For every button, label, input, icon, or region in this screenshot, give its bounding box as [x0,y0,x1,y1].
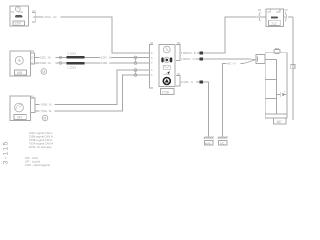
icon clock in 1728 [163,46,170,53]
connector bracket ( of 717 [259,12,260,21]
connector bracket left of 1728 [150,45,154,89]
inline connector square on right wire [291,64,295,68]
symbol circle in box 1337 [15,7,20,12]
wire AP41-JN from 1337 to node [35,17,150,53]
svg-text:5: 5 [181,51,183,55]
svg-text:133B - Gi: 133B - Gi [40,61,51,65]
connector N1 of box 247 [31,98,36,113]
svg-text:133C - Ni: 133C - Ni [40,56,51,60]
svg-text:4: 4 [151,68,153,72]
connector N4 of box 1337 [32,13,35,23]
wire BP10-B (1728 to 717) [183,17,257,53]
svg-text:C 133 A: C 133 A [67,66,76,70]
svg-text:BP10 - B: BP10 - B [185,51,196,55]
wire 133B CAN H (645 to 1728) [34,62,149,64]
svg-text:8: 8 [31,62,33,65]
svg-text:N0: N0 [285,9,289,12]
wire MC-N (1728 pin2 to battery box) [183,58,250,60]
svg-text:247 - Licznik: 247 - Licznik [25,160,41,164]
svg-text:1332 - wspomaganie: 1332 - wspomaganie [25,163,50,167]
svg-text:+: + [284,91,286,94]
svg-text:1337: 1337 [14,22,21,26]
splice on 133B [59,62,62,65]
connector right of 717 [284,16,294,18]
inline connector pair on lower CAN wires [135,70,137,75]
ground MAU [204,137,214,139]
svg-text:N0: N0 [258,9,262,12]
battery icon on top [274,49,280,53]
svg-text:717: 717 [271,22,277,26]
wire 133C CAN L (645 to 1728) [34,57,149,59]
twisted pair shield C133 A [67,56,85,59]
wire Y53B CAN L (247 to riser) [35,70,150,105]
svg-text:3-115: 3-115 [3,140,10,164]
svg-text:247: 247 [17,116,23,120]
fuse box 717 (top right) [266,9,284,26]
wire MAL-N (1728 to ground) [183,82,209,137]
battery cell symbol [277,92,286,97]
svg-text:6: 6 [257,15,259,19]
component box 247 (instrument cluster) [10,96,31,121]
svg-text:645 - UCH: 645 - UCH [25,156,38,160]
svg-text:2: 2 [181,57,183,61]
icon arrow in 1728 [163,72,171,75]
connector bracket top-right of 1728 [176,45,180,61]
svg-text:5A: 5A [11,10,14,14]
symbol circle in box 645 [15,56,23,64]
svg-text:Y53B - Gi: Y53B - Gi [40,103,52,107]
svg-text:5: 5 [151,56,153,60]
diagonal of MC-N wire to connector [244,59,256,64]
svg-text:645: 645 [17,71,23,75]
circled letter M near 247 [42,115,48,121]
svg-text:AP41 - JN: AP41 - JN [45,15,57,19]
icon envelope in 1728 [163,66,170,70]
wire 717 to battery box (right edge) [292,17,294,120]
connector left of 717 [260,16,266,18]
svg-text:Y53A-sygnal CAN H: Y53A-sygnal CAN H [29,142,53,146]
wire MC-N ground branch [223,64,244,137]
ground hatch MC [218,136,228,138]
circled letter M near 645 [41,69,47,75]
svg-text:8: 8 [151,51,153,55]
inline connector to battery box [256,55,265,64]
ground MC [218,137,228,139]
connector bracket ) of 717 [285,12,286,21]
component box 1337 (fuse box, top-left) [10,6,29,26]
svg-text:7: 7 [151,61,153,65]
splice on 133C [59,56,62,59]
svg-text:MC - N: MC - N [186,57,194,61]
svg-text:133B - Gi: 133B - Gi [101,61,112,65]
svg-text:N4: N4 [33,10,37,13]
svg-text:MC - N: MC - N [227,62,235,66]
symbol circle in box 247 (speedometer) [15,103,24,112]
svg-text:1728: 1728 [162,91,169,95]
central unit 1728 [159,45,175,87]
svg-text:Y53A - Ni: Y53A - Ni [40,109,51,113]
svg-text:M: M [44,116,47,120]
ground hatch MAU [204,136,214,138]
svg-text:133C - Ni: 133C - Ni [101,56,112,60]
svg-text:10A: 10A [276,10,281,14]
icon horn in 1728 [161,57,163,62]
svg-text:133C-sygnal CAN L: 133C-sygnal CAN L [29,131,53,135]
svg-text:MAU: MAU [205,141,211,145]
svg-text:MC: MC [220,141,224,145]
svg-text:Y53B-sygnal CAN L: Y53B-sygnal CAN L [29,138,53,142]
svg-text:133B-sygnal CAN H: 133B-sygnal CAN H [29,135,53,139]
svg-text:M: M [42,70,45,74]
svg-text:187: 187 [277,120,283,124]
component box 645 (UCH) [10,51,31,76]
connector bracket bottom-right of 1728 [176,76,180,87]
svg-text:C 133 A: C 133 A [67,51,76,55]
wire Y53A CAN H (247 to riser) [35,75,150,111]
svg-text:AP44- tor sterujacy: AP44- tor sterujacy [29,145,53,149]
icon warning ring in 1728 [163,78,170,85]
svg-text:6: 6 [151,73,153,77]
battery / engine box 187 (right) [265,53,287,118]
svg-text:10: 10 [31,56,34,59]
inline connector pair on CAN wires [135,58,137,64]
connector N4 of box 645 [31,53,35,64]
svg-text:MAL - N: MAL - N [184,80,194,84]
